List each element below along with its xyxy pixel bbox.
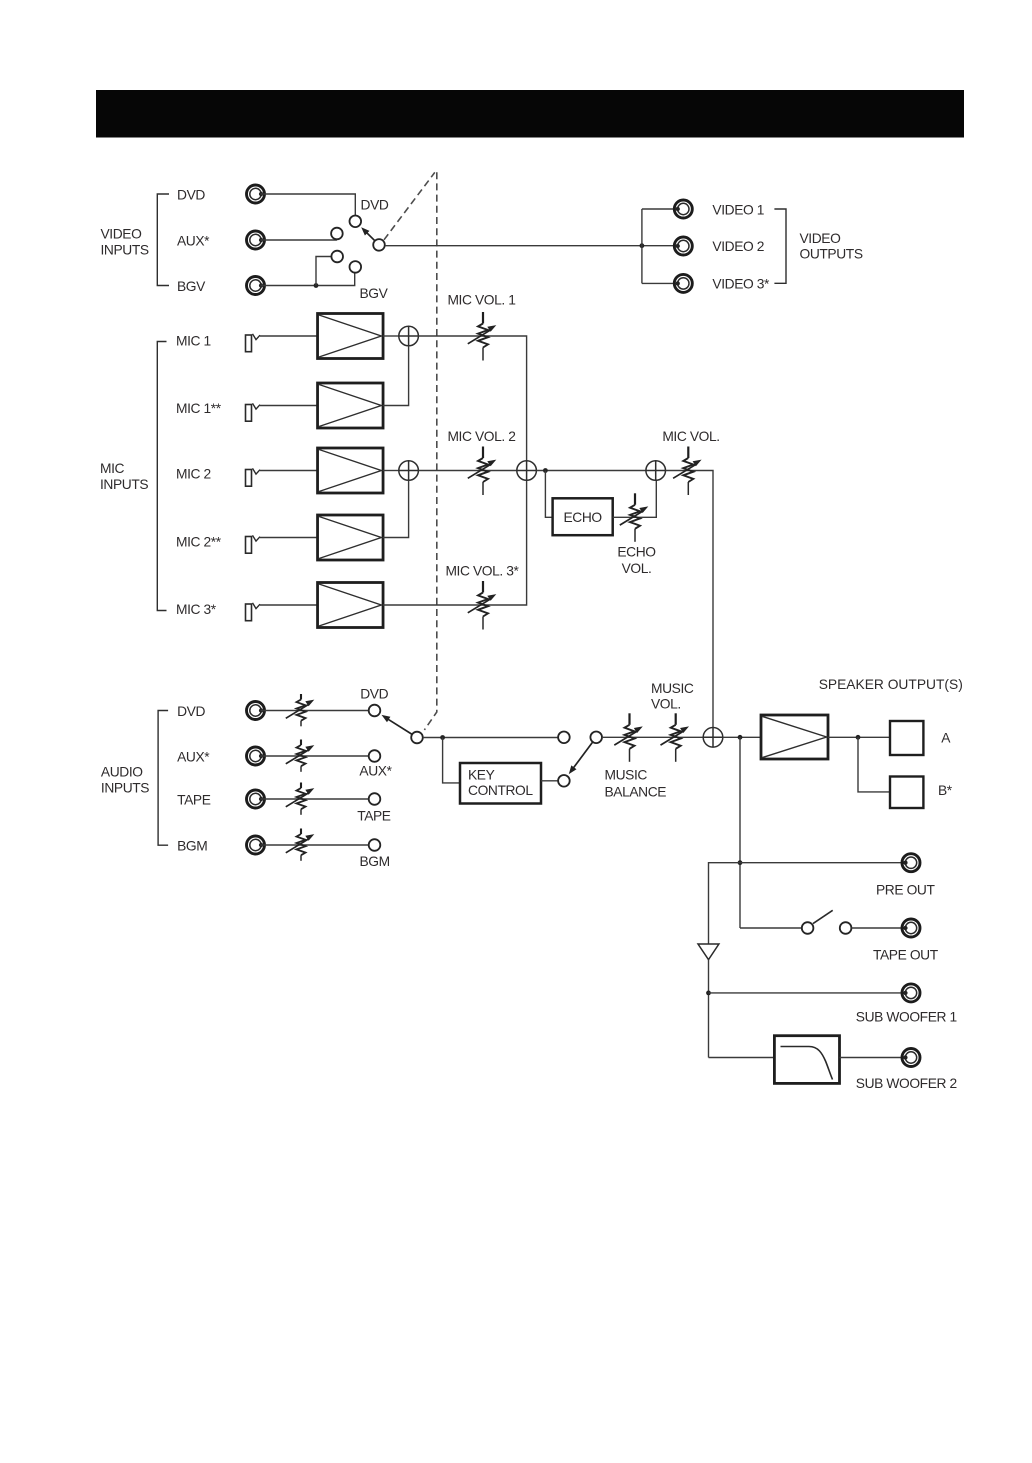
svg-text:BALANCE: BALANCE <box>605 785 667 800</box>
sum node MIC 2 <box>399 461 419 481</box>
jack BGV video input <box>247 277 265 295</box>
arrow video switch lever <box>366 232 375 241</box>
wire branch to speaker B <box>858 737 890 792</box>
wire MIC 1 sum to vol <box>418 336 526 461</box>
node sub woofer 1 junction <box>706 991 711 996</box>
jack TAPE audio <box>247 790 265 808</box>
jack MIC 2** <box>246 535 261 553</box>
wire BGM audio <box>261 844 369 846</box>
svg-text:TAPE: TAPE <box>357 808 391 823</box>
wire sub branch left <box>709 863 741 944</box>
contact tape switch left <box>802 922 814 934</box>
jack MIC 1 <box>246 334 261 352</box>
jack BGM audio <box>247 836 265 854</box>
VIDEO INPUTS bracket <box>157 194 169 286</box>
contact AUX audio switch <box>369 750 381 762</box>
svg-text:KEY: KEY <box>468 767 495 782</box>
svg-text:BGM: BGM <box>177 839 207 854</box>
jack MIC 2 <box>246 468 261 486</box>
box speaker A <box>890 721 923 755</box>
contact DVD audio switch <box>369 705 381 717</box>
pot AUX input level <box>286 740 315 772</box>
box KEY CONTROL <box>460 763 541 804</box>
svg-text:PRE OUT: PRE OUT <box>876 882 935 897</box>
amp MIC 2 <box>318 448 384 493</box>
low pass filter curve <box>781 1047 833 1080</box>
jack SUB WOOFER 1 <box>902 984 920 1002</box>
svg-text:MIC 2: MIC 2 <box>176 466 211 481</box>
jack VIDEO 1 <box>674 200 692 218</box>
label MUSIC VOL. <box>651 681 694 711</box>
sum node MIC 1 <box>399 326 419 346</box>
wire MIC 1 amp to sum <box>383 335 399 337</box>
svg-text:B*: B* <box>938 783 953 798</box>
svg-text:VOL.: VOL. <box>651 696 681 711</box>
svg-text:INPUTS: INPUTS <box>101 780 149 795</box>
pole audio switch <box>411 732 423 744</box>
AUDIO INPUTS bracket <box>158 711 168 846</box>
node preout branch junction <box>738 735 743 740</box>
wire MIC 2 to amp <box>260 470 318 472</box>
arrow audio switch lever <box>388 719 412 734</box>
svg-text:DVD: DVD <box>361 198 389 213</box>
svg-text:ECHO: ECHO <box>563 510 602 525</box>
wire echo branch down <box>545 471 552 518</box>
wire to PRE OUT <box>740 862 906 864</box>
box ECHO <box>553 498 613 535</box>
svg-text:A: A <box>941 730 951 745</box>
contact BGM audio switch <box>369 839 381 851</box>
wire key control branch <box>443 738 460 783</box>
wire key control out <box>541 780 558 782</box>
wire MIC 2** amp to sum <box>383 480 409 537</box>
wire stub video1 <box>642 208 674 210</box>
svg-text:VOL.: VOL. <box>622 561 652 576</box>
wire MIC 2 amp to sum <box>383 470 399 472</box>
jack AUX audio <box>247 747 265 765</box>
wire AUX video to switch <box>261 239 337 241</box>
wire tape branch <box>740 927 802 929</box>
node key control junction <box>440 735 445 740</box>
wire TAPE audio <box>261 798 369 800</box>
wire to TAPE OUT <box>851 927 905 929</box>
svg-text:SPEAKER OUTPUT(S): SPEAKER OUTPUT(S) <box>819 677 963 692</box>
lever tape switch <box>813 910 833 923</box>
header black bar <box>96 90 964 138</box>
wire MIC 2** to amp <box>260 537 318 539</box>
svg-text:VIDEO 3*: VIDEO 3* <box>712 277 770 292</box>
wire mic bus to echo sum <box>536 470 646 472</box>
pot MIC VOL. 3* <box>468 581 497 630</box>
svg-text:DVD: DVD <box>177 188 205 203</box>
pole music balance switch <box>590 732 602 744</box>
contact AUX video switch <box>331 228 343 240</box>
svg-text:ECHO: ECHO <box>617 544 656 559</box>
node speaker branch junction <box>856 735 861 740</box>
svg-text:MIC 3*: MIC 3* <box>176 602 217 617</box>
svg-text:MIC VOL. 2: MIC VOL. 2 <box>447 429 515 444</box>
svg-text:SUB WOOFER 2: SUB WOOFER 2 <box>856 1076 957 1091</box>
VIDEO OUTPUTS bracket <box>774 209 786 283</box>
wire MIC 1 to amp <box>260 335 318 337</box>
amp MIC 2** <box>318 515 384 560</box>
wire MIC 2 sum to bus <box>418 470 516 472</box>
wire AUX audio <box>261 755 369 757</box>
pot BGM input level <box>286 829 315 861</box>
svg-text:VIDEO 1: VIDEO 1 <box>712 202 764 217</box>
wire DVD video to switch <box>261 194 356 215</box>
svg-text:INPUTS: INPUTS <box>101 243 149 258</box>
pole video switch <box>373 239 385 251</box>
label VIDEO OUTPUTS <box>800 231 863 262</box>
label ECHO VOL. <box>617 544 656 576</box>
jack AUX video input <box>247 231 265 249</box>
amp MIC 3* <box>318 583 384 628</box>
MIC INPUTS bracket <box>157 342 166 611</box>
buffer triangle <box>698 944 719 960</box>
wire video bus <box>385 245 678 247</box>
jack MIC 1** <box>246 403 261 421</box>
svg-text:MIC 2**: MIC 2** <box>176 534 222 549</box>
svg-text:MUSIC: MUSIC <box>605 767 648 782</box>
jack VIDEO 3 <box>674 274 692 292</box>
jack PRE OUT <box>902 854 920 872</box>
svg-text:DVD: DVD <box>177 704 205 719</box>
svg-text:AUX*: AUX* <box>177 234 210 249</box>
jack SUB WOOFER 2 <box>902 1049 920 1067</box>
svg-text:MUSIC: MUSIC <box>651 681 694 696</box>
contact balance keyed <box>558 775 570 787</box>
svg-text:BGV: BGV <box>177 279 206 294</box>
wire filter to SUB WOOFER 2 <box>840 1057 906 1059</box>
svg-text:VIDEO: VIDEO <box>101 226 143 241</box>
svg-text:MIC VOL.: MIC VOL. <box>662 429 719 444</box>
svg-text:DVD: DVD <box>360 687 388 702</box>
pot DVD input level <box>286 694 315 726</box>
svg-text:OUTPUTS: OUTPUTS <box>800 247 863 262</box>
sum node main <box>703 728 723 748</box>
wire amp to speaker A <box>828 736 890 738</box>
contact tape switch right <box>840 922 852 934</box>
contact balance direct <box>558 732 570 744</box>
label AUDIO INPUTS <box>101 765 149 796</box>
wire MIC 3* to amp <box>260 604 318 606</box>
node BGV junction <box>314 283 319 288</box>
wire MIC 1** amp to sum <box>383 346 409 406</box>
amp MIC 1** <box>318 383 384 428</box>
wire MIC 3* amp to vol and up <box>383 480 527 605</box>
wire to low pass filter <box>709 1057 775 1059</box>
svg-text:MIC 1**: MIC 1** <box>176 401 222 416</box>
pot MIC VOL. 2 <box>468 447 497 496</box>
wire MIC 1** to amp <box>260 405 318 407</box>
pot MIC VOL. 1 <box>468 312 497 361</box>
sum node echo return <box>646 461 666 481</box>
svg-text:MIC VOL. 3*: MIC VOL. 3* <box>445 564 519 579</box>
label MIC INPUTS <box>100 461 148 492</box>
contact BGV-a video switch <box>331 251 343 263</box>
sum node mic bus <box>517 461 537 481</box>
node echo branch junction <box>543 468 548 473</box>
arrow music balance lever <box>574 742 593 768</box>
contact BGV-b video switch <box>350 261 362 273</box>
dashed control line vertical <box>424 172 436 730</box>
wire sum to power amp <box>723 736 761 738</box>
amp MIC 1 <box>318 314 384 359</box>
wire BGV branch to upper contact <box>316 257 331 286</box>
wire to SUB WOOFER 1 <box>709 992 906 994</box>
pot TAPE input level <box>286 783 315 815</box>
svg-text:INPUTS: INPUTS <box>100 477 148 492</box>
box speaker B* <box>890 777 923 809</box>
power amp box <box>761 715 828 759</box>
wire buffer down <box>708 960 710 1058</box>
box low pass filter <box>774 1036 839 1084</box>
pot MUSIC BALANCE <box>614 713 643 762</box>
wire audio pole to balance contact <box>423 737 558 739</box>
wire DVD audio <box>261 710 369 712</box>
svg-text:VIDEO: VIDEO <box>800 231 842 246</box>
node video bus junction <box>640 243 645 248</box>
node pre out junction <box>738 860 743 865</box>
pot MUSIC VOL. <box>661 713 690 762</box>
svg-text:AUX*: AUX* <box>359 764 392 779</box>
contact DVD video switch <box>350 216 362 228</box>
wire stub video3 <box>642 282 674 284</box>
label MUSIC BALANCE <box>605 767 667 799</box>
svg-text:BGV: BGV <box>360 286 389 301</box>
svg-text:MIC VOL. 1: MIC VOL. 1 <box>447 292 515 307</box>
svg-text:SUB WOOFER 1: SUB WOOFER 1 <box>856 1009 957 1024</box>
svg-text:VIDEO 2: VIDEO 2 <box>712 239 764 254</box>
svg-text:MIC 1: MIC 1 <box>176 333 211 348</box>
wire main down bus <box>739 737 741 928</box>
svg-text:TAPE OUT: TAPE OUT <box>873 947 939 962</box>
jack DVD video input <box>247 185 265 203</box>
svg-text:MIC: MIC <box>100 461 125 476</box>
label VIDEO INPUTS <box>101 226 149 257</box>
pot ECHO VOL. <box>620 493 649 542</box>
wire balance pole to sum <box>602 736 703 738</box>
wire video out bus vertical <box>641 209 643 283</box>
label KEY CONTROL <box>468 767 533 798</box>
jack TAPE OUT <box>902 919 920 937</box>
wire mic master to bus down <box>666 471 714 728</box>
contact TAPE audio switch <box>369 793 381 805</box>
jack MIC 3* <box>246 603 261 621</box>
svg-text:CONTROL: CONTROL <box>468 783 533 798</box>
svg-text:BGM: BGM <box>359 854 389 869</box>
jack DVD audio <box>247 702 265 720</box>
svg-text:AUDIO: AUDIO <box>101 765 143 780</box>
dashed link video switch to control line <box>384 172 435 239</box>
svg-text:TAPE: TAPE <box>177 793 211 808</box>
jack VIDEO 2 <box>674 237 692 255</box>
pot MIC VOL. master <box>673 447 702 496</box>
wire BGV video to switch <box>261 273 355 286</box>
wire echo out to sum <box>613 480 657 517</box>
svg-text:AUX*: AUX* <box>177 750 210 765</box>
